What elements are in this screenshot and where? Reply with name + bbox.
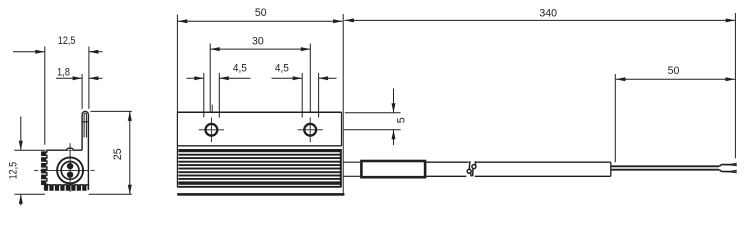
svg-text:12,5: 12,5 (58, 35, 76, 47)
svg-text:5: 5 (395, 117, 407, 123)
heatsink fins (front view horizontal ribs) (178, 149, 341, 152)
svg-text:4,5: 4,5 (275, 62, 289, 74)
dimension 12,5 (vertical, body height left side) (14, 149, 45, 151)
svg-text:12,5: 12,5 (7, 162, 19, 180)
heatsink extrusion body with serrated fins (left view) (42, 150, 89, 190)
cable break symbol (468, 161, 471, 170)
mounting hole left with crosshair (206, 124, 218, 136)
cable jacket right segment with end cap (476, 161, 611, 163)
mounting hole right with crosshair (304, 124, 316, 136)
svg-text:50: 50 (668, 65, 680, 77)
dimension 12,5 (bracket width, top-left) (44, 47, 46, 145)
strain-relief sleeve (361, 161, 425, 177)
svg-text:25: 25 (112, 148, 124, 160)
dimension 25 (overall height of left view) (91, 110, 132, 112)
heating cartridge cross-section (circles with two conductors) (57, 157, 83, 183)
svg-text:30: 30 (252, 35, 264, 47)
cable jacket left segment (426, 161, 468, 163)
dimensions 4,5 (slot widths at both holes) (203, 73, 205, 118)
cable entry stub (343, 161, 360, 163)
front view mounting plate outline (177, 111, 341, 113)
dimension 30 (hole spacing) (209, 44, 211, 113)
svg-text:340: 340 (539, 7, 557, 19)
dimension 340 (cable length) (734, 13, 736, 158)
dimension 1,8 (tab thickness) (81, 74, 83, 109)
twin connection wires with stripped ends (611, 165, 719, 167)
dimension 50 (stripped wire length) (614, 74, 616, 162)
dimension 5 (hole offset from top edge) (345, 112, 401, 114)
bracket tab with rounded top (left view) (82, 111, 88, 190)
centerlines of cartridge (34, 169, 38, 171)
svg-text:1,8: 1,8 (57, 66, 70, 78)
bottom rail edge line (177, 193, 344, 196)
svg-text:50: 50 (255, 7, 267, 19)
svg-text:4,5: 4,5 (233, 62, 247, 74)
dimension 50 (body width) (176, 15, 178, 113)
